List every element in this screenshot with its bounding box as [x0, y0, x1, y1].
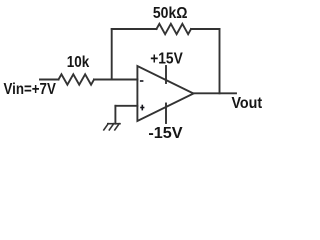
- svg-text:+15V: +15V: [150, 50, 183, 67]
- wire output: [194, 92, 237, 94]
- svg-text:-15V: -15V: [148, 125, 183, 142]
- wire right vertical down to output node: [219, 29, 221, 93]
- op-amp U1 triangle: [137, 66, 193, 121]
- wire Vin to R1: [40, 79, 59, 81]
- op-amp minus input mark: [140, 80, 144, 82]
- wire -15V supply: [165, 104, 167, 124]
- resistor R2 50k: [157, 24, 192, 34]
- svg-text:Vout: Vout: [231, 95, 262, 112]
- wire feedback vertical from node A: [111, 29, 113, 80]
- resistor R1 10k: [59, 74, 95, 84]
- wire R1 to inverting input (node A): [94, 79, 137, 81]
- op-amp plus input mark: [140, 107, 144, 109]
- wire noninverting input: [115, 105, 137, 107]
- svg-text:10k: 10k: [67, 54, 90, 71]
- wire R2 to top right corner: [191, 28, 220, 30]
- wire to ground: [114, 106, 116, 124]
- svg-text:Vin=+7V: Vin=+7V: [4, 81, 57, 98]
- svg-text:50kΩ: 50kΩ: [153, 5, 188, 22]
- ground symbol: [108, 123, 120, 125]
- wire top left to R2: [112, 28, 157, 30]
- wire +15V supply: [165, 66, 167, 83]
